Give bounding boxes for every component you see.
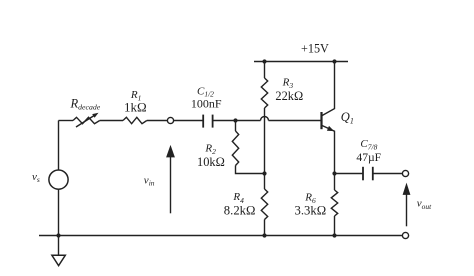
svg-text:vs: vs [32,171,40,184]
svg-text:+15V: +15V [301,42,329,56]
svg-text:100nF: 100nF [191,96,222,110]
svg-text:47µF: 47µF [356,151,381,164]
svg-text:1kΩ: 1kΩ [124,100,147,115]
svg-text:22kΩ: 22kΩ [275,89,303,103]
svg-text:vout: vout [417,198,432,211]
svg-text:R3: R3 [282,76,294,90]
svg-text:Q1: Q1 [341,110,354,126]
svg-text:vin: vin [144,174,155,187]
svg-text:Rdecade: Rdecade [70,96,101,111]
svg-text:8.2kΩ: 8.2kΩ [224,203,256,217]
svg-text:3.3kΩ: 3.3kΩ [295,204,327,218]
svg-text:C7/8: C7/8 [360,138,377,151]
svg-text:10kΩ: 10kΩ [197,155,225,169]
